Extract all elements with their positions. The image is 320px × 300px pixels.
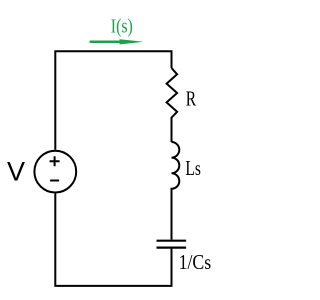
- svg-text:I(s): I(s): [111, 16, 133, 38]
- capacitor bottom plate: [157, 247, 187, 249]
- voltage source minus sign: [50, 180, 59, 182]
- svg-text:V: V: [7, 157, 25, 187]
- capacitor top plate: [157, 240, 187, 242]
- resistor R zigzag: [167, 68, 178, 142]
- svg-text:Ls: Ls: [185, 158, 201, 180]
- voltage source plus sign: [50, 156, 60, 166]
- voltage source V1 circle: [34, 151, 76, 193]
- wire: top, left side and down to source: [55, 51, 171, 150]
- current arrow I(s): [90, 39, 144, 44]
- svg-text:R: R: [186, 89, 197, 111]
- wire: from source bottom, bottom side, up to capacitor bottom plate: [55, 193, 171, 286]
- inductor Ls coils: [172, 142, 180, 240]
- svg-text:1/Cs: 1/Cs: [179, 250, 212, 274]
